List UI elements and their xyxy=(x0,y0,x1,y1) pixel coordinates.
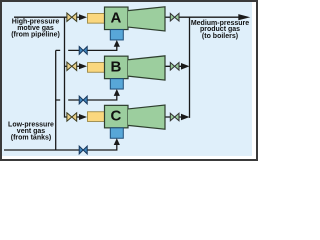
wire: product line A to output arrow xyxy=(179,16,240,18)
label: medium-pressure product gas xyxy=(191,20,249,40)
ejector B: suction port xyxy=(110,79,123,89)
ejector C: motive nozzle xyxy=(88,112,105,122)
svg-text:B: B xyxy=(110,58,121,75)
ejector B: mixing box xyxy=(105,56,129,79)
arrow: product C into header xyxy=(181,114,190,121)
valve: product valve A (green bowtie) xyxy=(170,13,174,21)
arrow: motive gas into nozzle B xyxy=(77,65,80,67)
arrow: suction into ejector A (upward) xyxy=(114,40,120,47)
ejector A: diffuser horn xyxy=(128,6,165,31)
svg-text:C: C xyxy=(110,108,121,125)
wire: vent header vertical xyxy=(55,50,57,150)
arrow: motive gas into nozzle C xyxy=(77,116,80,118)
label: high-pressure motive gas xyxy=(11,18,60,38)
ejector A: suction port xyxy=(110,30,123,40)
arrow: product B into header xyxy=(181,63,190,70)
arrow: medium-pressure product gas outlet (large) xyxy=(238,14,250,20)
ejector A: product stub wire xyxy=(165,16,170,18)
ejector B: motive nozzle xyxy=(88,63,105,73)
svg-text:(from tanks): (from tanks) xyxy=(11,134,51,141)
valve: motive valve B (yellow bowtie) xyxy=(67,62,72,70)
ejector C: suction port xyxy=(110,128,123,138)
valve: suction valve B (blue bowtie) xyxy=(79,96,83,104)
ejector C: mixing box xyxy=(105,105,129,128)
ejector A: motive nozzle xyxy=(88,13,105,23)
ejector A: mixing box xyxy=(105,7,129,30)
wire: product header vertical xyxy=(189,17,191,118)
valve: suction valve vent line (blue bowtie) xyxy=(79,146,83,154)
arrow: suction into ejector B (upward) xyxy=(114,89,120,96)
svg-text:A: A xyxy=(110,9,121,26)
ejector C: diffuser horn xyxy=(128,105,165,130)
wire: motive header with elbow to valve C xyxy=(65,17,67,117)
ejector B: diffuser horn xyxy=(128,56,165,81)
svg-text:(to boilers): (to boilers) xyxy=(202,33,238,40)
wire: low-pressure vent gas pipe xyxy=(4,144,117,150)
svg-text:(from pipeline): (from pipeline) xyxy=(11,31,60,38)
wire: high-pressure motive gas pipe into valve A xyxy=(14,16,67,18)
label: low-pressure vent gas xyxy=(8,121,54,141)
ejector B: product stub wire xyxy=(165,65,183,67)
wire: suction branch A with crossover break xyxy=(56,46,117,51)
arrow: suction into ejector C (upward) xyxy=(114,138,120,145)
valve: suction valve A (blue bowtie) xyxy=(79,47,83,55)
arrow: motive gas into nozzle A xyxy=(77,16,80,18)
valve: motive valve C (yellow bowtie) xyxy=(67,113,72,121)
frame border xyxy=(1,1,257,160)
wire: suction branch B with crossover break xyxy=(56,95,117,100)
valve: product valve B (green bowtie) xyxy=(170,63,174,71)
ejector C: product stub wire xyxy=(165,116,183,118)
wire: motive tee to valve B xyxy=(65,65,67,67)
valve: motive valve A (yellow bowtie) xyxy=(67,13,72,21)
background panel xyxy=(0,0,258,161)
valve: product valve C (green bowtie) xyxy=(170,113,174,121)
